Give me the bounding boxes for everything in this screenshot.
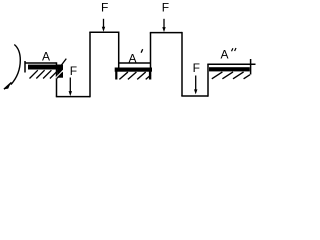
beam outline (stepped bar)	[25, 32, 256, 98]
wire: channel 1 bottom	[56, 96, 90, 98]
force F2 arrow	[163, 19, 165, 29]
svg-text:F: F	[162, 1, 169, 15]
wire: channel 2 bottom	[181, 95, 208, 97]
wire: pulse 1 right wall down to support A'	[118, 32, 120, 69]
right end tick of beam	[250, 59, 252, 75]
support A surface bar	[28, 65, 63, 70]
wire: pulse 2 left wall	[150, 33, 152, 68]
force F1 arrow	[103, 19, 105, 29]
support A' right end cap	[149, 71, 151, 80]
support A right end overshoot hatch stroke	[61, 59, 67, 66]
wire: beam segment over support A''	[207, 63, 255, 65]
svg-text:F: F	[193, 61, 200, 75]
support A'' surface bar	[209, 67, 250, 71]
support A' hatching	[119, 72, 150, 79]
wire: beam segment over support A	[25, 62, 57, 64]
svg-text:A: A	[221, 48, 229, 62]
wire: step down wall after A	[56, 62, 58, 96]
support A right end cap	[57, 65, 63, 78]
left end tick of beam	[24, 61, 26, 73]
svg-text:F: F	[70, 64, 77, 78]
wire: wall up to pulse 1	[89, 32, 91, 97]
svg-text:F: F	[101, 1, 108, 15]
moment arc arrowhead	[4, 83, 11, 89]
moment arc arrow at left end	[11, 45, 20, 85]
support A hatching	[30, 70, 63, 78]
svg-text:A: A	[42, 49, 50, 63]
wire: wall up to support A'' level	[207, 64, 209, 96]
force F3 arrow	[69, 78, 71, 93]
force F4 arrow	[195, 76, 197, 91]
wire: pulse 2 top	[150, 32, 182, 34]
support A'' hatching	[212, 72, 250, 79]
wire: pulse 2 right wall down	[181, 32, 183, 96]
svg-text:A: A	[129, 52, 137, 66]
support A' surface bar	[115, 68, 152, 72]
support A' left end cap	[115, 71, 117, 80]
wire: pulse 1 top	[89, 31, 118, 33]
wire: beam segment over support A'	[119, 62, 151, 64]
